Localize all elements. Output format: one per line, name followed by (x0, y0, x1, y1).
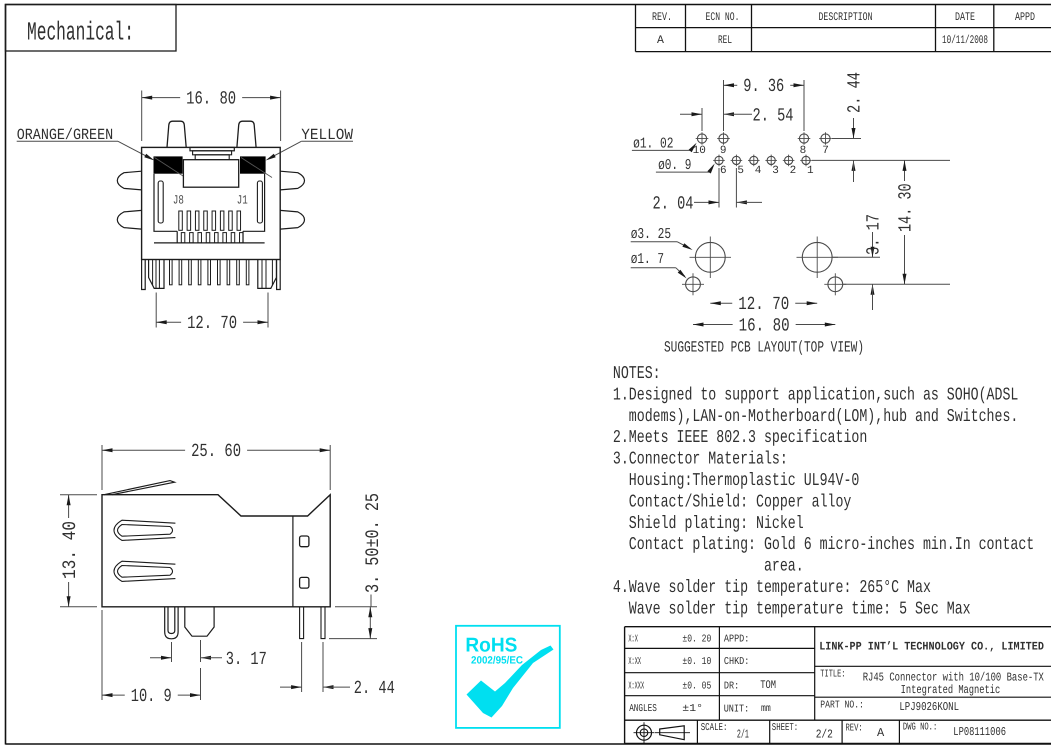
side: plastic peg (slot) (165, 607, 178, 639)
svg-text:modems),LAN-on-Motherboard(LOM: modems),LAN-on-Motherboard(LOM),hub and … (613, 407, 1018, 427)
PCB pad pin 6 (Ø0.9) (715, 156, 723, 164)
front: center latch block (183, 160, 238, 188)
front: contact comb (8 contacts) (179, 211, 183, 230)
side: latch pocket upper (114, 520, 175, 540)
svg-text:2. 54: 2. 54 (753, 105, 794, 126)
svg-text:DR:: DR: (724, 681, 739, 693)
svg-text:SUGGESTED PCB LAYOUT(TOP VIEW): SUGGESTED PCB LAYOUT(TOP VIEW) (664, 339, 864, 357)
dim 2.54 extension line pin10 (701, 108, 703, 131)
side: right pin window upper (300, 536, 309, 547)
dim 2.04 extension lines (718, 168, 720, 208)
svg-text:REV:: REV: (846, 723, 863, 735)
svg-text:ECN NO.: ECN NO. (706, 11, 740, 24)
PCB small hole left (Ø1.7) (686, 277, 701, 292)
side: latch spring blade (104, 481, 175, 495)
dim 2.54 (outside arrows) (680, 113, 702, 115)
dim 12.70 (front bottom) (156, 321, 181, 323)
dim 13.40 vertical (68, 495, 70, 518)
svg-text:±0. 10: ±0. 10 (682, 656, 711, 668)
dim 25.60 (102, 449, 185, 451)
dim 2.44 (side, outside arrows) (280, 686, 302, 688)
svg-text:X:X: X:X (628, 634, 638, 646)
svg-text:LPJ9026KONL: LPJ9026KONL (899, 700, 959, 714)
svg-text:16. 80: 16. 80 (186, 88, 236, 109)
svg-text:A: A (877, 726, 885, 740)
front: left LED diagonal (155, 158, 191, 181)
svg-text:APPD:: APPD: (724, 634, 750, 646)
svg-text:ø1. 7: ø1. 7 (631, 251, 664, 268)
svg-text:A: A (657, 34, 664, 47)
front: left LED window (black) (154, 156, 183, 173)
svg-text:REL: REL (718, 34, 732, 47)
svg-text:ø3. 25: ø3. 25 (631, 226, 671, 243)
title block right-section row lines (815, 665, 1051, 667)
svg-text:APPD: APPD (1015, 11, 1035, 24)
dim 2.44 vertical (row1-row2) (832, 138, 861, 140)
svg-text:REV.: REV. (652, 11, 672, 24)
svg-text:Mechanical:: Mechanical: (27, 18, 134, 48)
dim 14.30 vertical (904, 160, 906, 181)
svg-text:10. 9: 10. 9 (131, 686, 172, 707)
dim 10.9 (102, 694, 125, 696)
front: cavity bottom box (177, 231, 243, 243)
svg-text:SCALE:: SCALE: (701, 722, 728, 734)
front: right solder tab block (258, 260, 277, 289)
svg-text:4.Wave solder tip temperature:: 4.Wave solder tip temperature: 265°C Max (613, 578, 931, 598)
PCB pad pin 3 (Ø0.9) (767, 156, 775, 164)
PCB small hole right (Ø1.7) (828, 277, 843, 292)
svg-text:2. 44: 2. 44 (354, 678, 395, 699)
dim 3.17 (side, outside arrows) (150, 657, 172, 659)
dim 12.70 (pcb) (710, 302, 732, 304)
front: right shield leg (277, 260, 281, 290)
svg-text:7: 7 (822, 145, 829, 157)
front: shield outer body (142, 147, 281, 259)
front: left ear upper (117, 171, 141, 190)
dim 9.36 (724, 84, 738, 86)
dim 13.40 extension lines (60, 494, 97, 496)
svg-text:3.Connector Materials:: 3.Connector Materials: (613, 450, 788, 470)
svg-text:Shield plating: Nickel: Shield plating: Nickel (613, 514, 804, 534)
PCB pad pin 9 (Ø1.02) (719, 134, 728, 143)
svg-text:±0. 20: ±0. 20 (682, 634, 711, 646)
svg-text:mm: mm (761, 703, 771, 715)
dim 16.80 (pcb) (693, 324, 733, 326)
svg-text:14. 30: 14. 30 (896, 183, 917, 232)
RoHS logo box (456, 626, 560, 728)
dim 3.17 extension lines (side) (171, 642, 173, 662)
front: left shield leg (142, 260, 146, 290)
svg-text:LP08111006: LP08111006 (953, 725, 1006, 739)
side: internal vertical divider (292, 516, 294, 607)
svg-text:area.: area. (613, 557, 804, 577)
svg-text:2/2: 2/2 (816, 727, 833, 741)
front: right guide rail (257, 181, 262, 223)
svg-text:DATE: DATE (955, 11, 975, 24)
front: right EMI post (237, 121, 256, 147)
dim 12.70 (front bottom) extension lines (155, 293, 157, 328)
front: left solder tab block (149, 260, 164, 289)
svg-text:1: 1 (807, 165, 814, 177)
svg-text:3. 50±0. 25: 3. 50±0. 25 (362, 493, 384, 593)
title block left-section row lines (625, 647, 815, 649)
front: right LED window (black) (240, 156, 266, 173)
svg-text:3. 17: 3. 17 (864, 214, 885, 255)
PCB pad pin 2 (Ø0.9) (785, 156, 793, 164)
side: right pin 1 (300, 607, 304, 639)
front: latch step 2 (193, 151, 232, 155)
svg-text:12. 70: 12. 70 (738, 294, 789, 315)
svg-text:DESCRIPTION: DESCRIPTION (819, 11, 873, 24)
front: right ear lower (280, 210, 304, 229)
svg-text:X:XXX: X:XXX (628, 681, 644, 693)
svg-text:ANGLES: ANGLES (629, 703, 657, 715)
svg-text:9: 9 (720, 145, 727, 157)
title block outer + horizontal lines (625, 626, 1051, 628)
svg-text:DWG NO.:: DWG NO.: (903, 721, 937, 733)
svg-text:Contact plating: Gold 6 micro-: Contact plating: Gold 6 micro-inches min… (613, 535, 1034, 555)
svg-text:Contact/Shield: Copper alloy: Contact/Shield: Copper alloy (613, 492, 852, 512)
svg-text:X:XX: X:XX (628, 656, 641, 668)
front: latch slot top bar (190, 147, 234, 150)
svg-text:±1°: ±1° (682, 703, 703, 715)
svg-text:TOM: TOM (760, 679, 776, 692)
svg-text:12. 70: 12. 70 (187, 313, 237, 334)
front: left EMI post (167, 121, 186, 147)
svg-text:5: 5 (737, 165, 744, 177)
svg-text:±0. 05: ±0. 05 (682, 681, 711, 693)
RoHS checkmark (467, 646, 554, 718)
svg-text:16. 80: 16. 80 (739, 315, 790, 336)
svg-text:SHEET:: SHEET: (772, 722, 798, 734)
front: latch step 3 (195, 155, 229, 160)
dim 3.50±0.25 extension lines (335, 606, 377, 608)
svg-text:Wave solder tip temperature ti: Wave solder tip temperature time: 5 Sec … (613, 599, 971, 619)
side: right pin window lower (300, 577, 309, 588)
PCB pad pin 5 (Ø0.9) (732, 156, 740, 164)
front: left guide rail (158, 181, 163, 223)
svg-text:3. 17: 3. 17 (226, 649, 267, 670)
svg-text:J8: J8 (173, 194, 184, 208)
PCB big mounting hole right (Ø3.25) (802, 242, 832, 272)
svg-text:RoHS: RoHS (465, 635, 517, 657)
svg-text:13. 40: 13. 40 (59, 521, 81, 579)
svg-text:Integrated Magnetic: Integrated Magnetic (901, 683, 1001, 697)
dim 10.9 extension lines (101, 610, 103, 700)
svg-text:ø0. 9: ø0. 9 (658, 157, 691, 174)
dim 16.80 (front top) (142, 97, 180, 99)
svg-text:LINK-PP INT’L TECHNOLOGY CO.,: LINK-PP INT’L TECHNOLOGY CO., LIMITED (819, 640, 1044, 653)
third angle projection symbol: target circle (637, 725, 652, 740)
dim 3.50±0.25 vertical (370, 595, 372, 607)
side: body outline with top-right notch (102, 495, 330, 607)
PCB pad pin 1 (Ø0.9) (802, 156, 810, 164)
svg-text:TITLE:: TITLE: (820, 669, 845, 681)
svg-text:2/1: 2/1 (737, 727, 749, 741)
svg-text:NOTES:: NOTES: (613, 364, 661, 384)
svg-text:PART NO.:: PART NO.: (820, 700, 864, 712)
svg-text:8: 8 (800, 145, 807, 157)
front: right ear upper (280, 171, 304, 190)
dim 3.17 vertical (big-small holes) (832, 256, 880, 258)
svg-text:2. 04: 2. 04 (653, 194, 694, 215)
svg-text:CHKD:: CHKD: (724, 656, 750, 668)
svg-text:4: 4 (755, 165, 762, 177)
dim 16.80 extension lines (front) (141, 91, 143, 142)
PCB pad pin 4 (Ø0.9) (750, 156, 758, 164)
PCB pad pin 8 (Ø1.02) (799, 134, 808, 143)
svg-text:10: 10 (693, 145, 706, 157)
svg-text:3: 3 (772, 165, 779, 177)
PCB big mounting hole left (Ø3.25) (695, 242, 725, 272)
front: lower contact comb (181, 233, 185, 243)
revision table grid (636, 27, 1051, 29)
side: solder tab (185, 607, 214, 636)
svg-text:2002/95/EC: 2002/95/EC (471, 655, 523, 667)
svg-text:6: 6 (720, 165, 727, 177)
front: left ear lower (117, 210, 141, 229)
front: cavity outline (154, 174, 265, 243)
svg-text:Housing:Thermoplastic UL94V-0: Housing:Thermoplastic UL94V-0 (613, 471, 859, 491)
svg-text:2: 2 (790, 165, 797, 177)
svg-text:25. 60: 25. 60 (191, 441, 241, 462)
front: row of thin pins (170, 260, 173, 285)
title block vertical lines (624, 627, 626, 744)
side: right pin 2 (321, 607, 325, 639)
PCB pad pin 10 (Ø1.02) (697, 134, 706, 143)
svg-text:10/11/2008: 10/11/2008 (942, 34, 988, 47)
side: latch pocket lower (114, 561, 175, 581)
dim 9.36 extension lines (723, 80, 725, 131)
dim 25.60 extension lines (101, 445, 103, 490)
svg-text:9. 36: 9. 36 (743, 76, 784, 97)
title block bottom row dividers (696, 720, 698, 743)
front: right LED diagonal (241, 158, 272, 178)
svg-text:2. 44: 2. 44 (845, 72, 866, 113)
dim 2.44 extension lines (side) (301, 642, 303, 692)
svg-text:1.Designed to support applicat: 1.Designed to support application,such a… (613, 385, 1018, 405)
PCB pad pin 7 (Ø1.02) (821, 134, 830, 143)
title box "Mechanical:" (6, 5, 177, 52)
svg-text:J1: J1 (237, 194, 248, 208)
svg-text:UNIT:: UNIT: (724, 704, 750, 716)
svg-text:2.Meets IEEE 802.3 specificati: 2.Meets IEEE 802.3 specification (613, 428, 867, 448)
third angle projection symbol: cone (660, 726, 685, 740)
